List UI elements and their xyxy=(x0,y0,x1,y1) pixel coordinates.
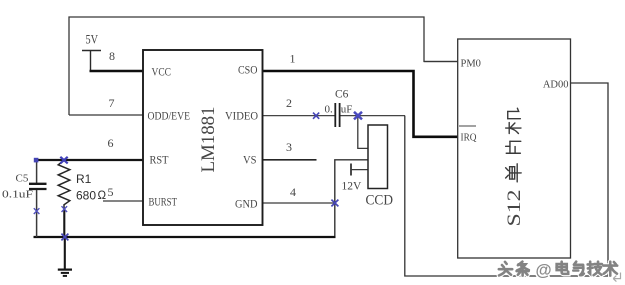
glyph ji xyxy=(506,108,521,133)
ground stem xyxy=(64,237,66,269)
chip value label LM1881 (vertical) xyxy=(199,107,219,173)
op-amp U1 LM1881 chip body xyxy=(143,50,263,225)
svg-text:3: 3 xyxy=(286,140,292,154)
svg-text:C6: C6 xyxy=(335,89,349,101)
node x on VIDEO wire xyxy=(313,113,319,119)
wire top loop from ODD/EVE over to PM0 xyxy=(69,17,458,115)
svg-text:VS: VS xyxy=(243,155,257,167)
pin label IRQ with overbar xyxy=(459,125,476,127)
microcontroller S12 block xyxy=(458,39,571,258)
wire AD00 outer loop xyxy=(405,83,608,276)
svg-text:VIDEO: VIDEO xyxy=(225,111,258,123)
wire VS pin 3 stub xyxy=(262,159,317,161)
svg-text:RST: RST xyxy=(150,155,169,167)
svg-text:CCD: CCD xyxy=(366,193,394,209)
node x at R1 bottom xyxy=(62,206,68,212)
5V supply symbol xyxy=(82,51,101,71)
wire GND pin 4 xyxy=(262,202,335,204)
svg-text:1: 1 xyxy=(290,52,296,66)
label S12 microcontroller (vertical S12 + CJK paths) xyxy=(504,108,525,226)
wire BURST pin 5 stub xyxy=(103,200,143,202)
wire ODD/EVE pin 7 xyxy=(69,114,143,116)
svg-text:0.1uF: 0.1uF xyxy=(2,189,33,201)
wire VCC pin 8 (thick) xyxy=(90,70,144,72)
glyph dan xyxy=(506,164,522,182)
wire video node down to CCD pin xyxy=(358,116,368,149)
node X at R1 top xyxy=(60,157,67,164)
svg-text:AD00: AD00 xyxy=(543,80,569,91)
svg-text:5: 5 xyxy=(108,185,114,199)
wire C6 right to corner x405 xyxy=(341,115,406,117)
svg-text:PM0: PM0 xyxy=(461,59,481,70)
svg-text:12V: 12V xyxy=(342,181,363,193)
wire VIDEO pin 2 left of C6 xyxy=(262,115,335,117)
svg-text:8: 8 xyxy=(109,49,115,63)
svg-text:680: 680 xyxy=(76,189,96,203)
svg-text:BURST: BURST xyxy=(149,197,178,209)
node X bold at C6 output xyxy=(354,112,362,120)
svg-text:CSO: CSO xyxy=(238,65,258,77)
12V supply symbol xyxy=(350,164,352,176)
ground symbol xyxy=(58,270,72,276)
wire VS-net to CCD and down to ground rail xyxy=(335,160,368,237)
svg-text:7: 7 xyxy=(109,96,115,110)
svg-text:uF: uF xyxy=(341,104,353,116)
node X at ground rail junction xyxy=(61,234,68,241)
capacitor C5 bottom lead xyxy=(36,190,38,237)
svg-text:IRQ: IRQ xyxy=(461,133,477,144)
node handle square on RST wire end xyxy=(34,158,39,163)
return arrow mark xyxy=(613,273,620,282)
capacitor C5 top lead xyxy=(36,160,38,183)
svg-text:VCC: VCC xyxy=(152,67,172,79)
wire ground rail (thick) xyxy=(34,236,336,238)
resistor R1 bottom lead xyxy=(63,209,65,237)
svg-text:C5: C5 xyxy=(16,173,29,185)
svg-text:6: 6 xyxy=(108,136,114,150)
wire PM0 lead xyxy=(424,61,458,63)
svg-text:GND: GND xyxy=(235,199,258,211)
CCD block xyxy=(368,125,388,189)
svg-text:R1: R1 xyxy=(76,172,92,186)
svg-text:2: 2 xyxy=(286,96,292,110)
svg-text:5V: 5V xyxy=(86,33,99,47)
resistor R1 zigzag xyxy=(58,161,70,210)
svg-text:ODD/EVE: ODD/EVE xyxy=(148,111,191,123)
node x on C5 lower lead xyxy=(34,208,40,214)
glyph pian xyxy=(506,141,521,153)
node X at GND pin junction xyxy=(331,200,338,207)
svg-text:4: 4 xyxy=(290,185,296,199)
svg-text:LM1881: LM1881 xyxy=(199,107,219,173)
svg-text:@: @ xyxy=(536,262,552,280)
wire CSO pin 1 to IRQ (thick) xyxy=(262,71,458,137)
svg-text:0.: 0. xyxy=(325,104,334,116)
svg-text:Ω: Ω xyxy=(98,190,107,202)
wire RST pin 6 (thick) xyxy=(36,159,143,161)
capacitor C6 plates xyxy=(334,103,336,127)
capacitor C5 plates xyxy=(29,183,47,185)
svg-text:S12: S12 xyxy=(504,190,525,227)
